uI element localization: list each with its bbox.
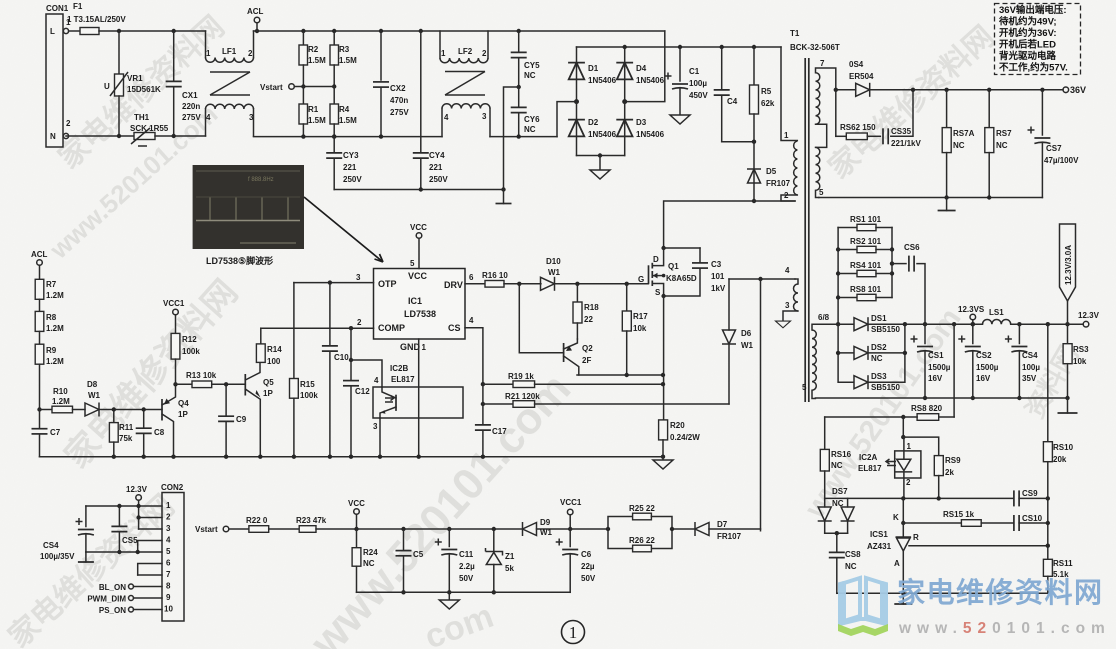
svg-text:275V: 275V bbox=[182, 113, 201, 122]
resistor R4 bbox=[330, 87, 357, 139]
svg-text:GND: GND bbox=[400, 342, 421, 352]
ACL terminal top bbox=[247, 7, 264, 31]
svg-text:75k: 75k bbox=[119, 434, 133, 443]
svg-text:1N5406: 1N5406 bbox=[588, 130, 617, 139]
svg-text:R3: R3 bbox=[339, 45, 350, 54]
resistor R24 bbox=[352, 529, 378, 592]
svg-text:8: 8 bbox=[166, 582, 171, 591]
terminal VCC bottom bbox=[348, 499, 365, 529]
svg-text:开机后若LED: 开机后若LED bbox=[999, 39, 1056, 51]
svg-text:10k: 10k bbox=[1073, 357, 1087, 366]
capacitor C1 bbox=[665, 47, 709, 124]
node Q1 source bbox=[661, 294, 665, 298]
resistor R11 bbox=[109, 410, 133, 457]
svg-text:NC: NC bbox=[996, 141, 1008, 150]
capacitor CS35 bbox=[867, 90, 921, 148]
inductor LS1 bbox=[983, 308, 1011, 324]
resistor RS62 bbox=[836, 90, 876, 140]
diode DS3 bbox=[838, 324, 905, 392]
svg-text:D: D bbox=[653, 255, 659, 264]
svg-text:SCK 1R55: SCK 1R55 bbox=[130, 124, 169, 133]
svg-text:RS7A: RS7A bbox=[953, 129, 975, 138]
resistor R25 bbox=[606, 504, 672, 549]
resistor R22 bbox=[246, 516, 299, 532]
svg-text:ICS1: ICS1 bbox=[870, 530, 888, 539]
node pin7/DS4 bbox=[834, 88, 838, 92]
node 6/8 row - bank left column bbox=[836, 322, 840, 326]
svg-text:C6: C6 bbox=[581, 550, 592, 559]
svg-text:D1: D1 bbox=[588, 64, 599, 73]
svg-text:R13 10k: R13 10k bbox=[186, 371, 217, 380]
ground bottom row bbox=[439, 592, 459, 609]
node pin1-CS5 bbox=[117, 504, 121, 508]
wire gate row bbox=[577, 283, 648, 285]
svg-text:IC2B: IC2B bbox=[390, 364, 408, 373]
svg-text:F1: F1 bbox=[73, 2, 83, 11]
capacitor CS8 bbox=[829, 533, 861, 593]
terminal 12.3V CON2 bbox=[126, 485, 148, 529]
wire source column bbox=[663, 296, 665, 420]
svg-text:CS1: CS1 bbox=[928, 351, 944, 360]
wire D7 riser bbox=[760, 279, 762, 531]
capacitor CS10 bbox=[1014, 514, 1048, 531]
svg-text:1P: 1P bbox=[178, 410, 188, 419]
wire CON2 pin4 bbox=[138, 541, 162, 553]
svg-text:R19 1k: R19 1k bbox=[508, 372, 534, 381]
svg-text:D2: D2 bbox=[588, 118, 599, 127]
node R21 left bbox=[481, 402, 485, 406]
resistor R5 bbox=[750, 45, 775, 142]
svg-text:1: 1 bbox=[166, 501, 171, 510]
resistor bank right column wire bbox=[891, 228, 893, 298]
svg-text:DS7: DS7 bbox=[832, 487, 848, 496]
svg-text:CS4: CS4 bbox=[43, 541, 59, 550]
capacitor CS5 bbox=[111, 506, 138, 552]
node source-R20 top bbox=[661, 373, 665, 377]
node R9-R10-C7 bbox=[37, 407, 41, 411]
svg-text:4: 4 bbox=[785, 266, 790, 275]
svg-text:4: 4 bbox=[206, 113, 211, 122]
svg-text:1: 1 bbox=[907, 442, 912, 451]
waveform photo bbox=[193, 165, 304, 249]
svg-text:1.2M: 1.2M bbox=[46, 291, 64, 300]
svg-text:COMP: COMP bbox=[378, 323, 405, 333]
svg-text:CY4: CY4 bbox=[429, 151, 445, 160]
svg-text:R4: R4 bbox=[339, 105, 350, 114]
wire feedback ground row bbox=[837, 592, 1048, 594]
svg-text:CS5: CS5 bbox=[122, 536, 138, 545]
svg-text:22: 22 bbox=[584, 315, 593, 324]
node D7 riser bbox=[758, 277, 762, 281]
connector CON2 bbox=[161, 483, 184, 621]
site logo bottom right bbox=[838, 576, 1111, 637]
node D4-D3 bbox=[622, 99, 627, 104]
capacitor C7 bbox=[32, 410, 61, 457]
svg-text:100k: 100k bbox=[182, 347, 200, 356]
svg-text:R15: R15 bbox=[300, 380, 315, 389]
svg-text:CY5: CY5 bbox=[524, 61, 540, 70]
svg-text:100µ: 100µ bbox=[689, 79, 707, 88]
svg-text:R: R bbox=[913, 533, 919, 542]
svg-text:U: U bbox=[104, 82, 110, 91]
svg-text:BL_ON: BL_ON bbox=[99, 583, 126, 592]
svg-text:1.2M: 1.2M bbox=[46, 357, 64, 366]
svg-text:DS1: DS1 bbox=[871, 314, 887, 323]
svg-text:C17: C17 bbox=[492, 427, 507, 436]
svg-text:450V: 450V bbox=[689, 91, 708, 100]
capacitor CS1 bbox=[911, 322, 951, 398]
svg-text:W1: W1 bbox=[741, 341, 754, 350]
svg-text:5: 5 bbox=[802, 383, 807, 392]
wire C4 to R5 bottom bbox=[722, 141, 754, 143]
svg-text:FR107: FR107 bbox=[766, 179, 791, 188]
pin4 CS wire bbox=[465, 316, 483, 384]
svg-text:FR107: FR107 bbox=[717, 532, 742, 541]
svg-text:275V: 275V bbox=[390, 108, 409, 117]
ground AZ431 bbox=[894, 593, 912, 604]
node ref-RS10 bbox=[1046, 544, 1050, 548]
wire CON2 pin6 bbox=[138, 564, 162, 576]
resistor RS1 bbox=[838, 215, 892, 231]
svg-text:221: 221 bbox=[429, 163, 443, 172]
diode D2 bbox=[568, 102, 616, 156]
svg-text:221: 221 bbox=[343, 163, 357, 172]
ground T (CY rail) bbox=[496, 187, 512, 203]
svg-text:1: 1 bbox=[422, 343, 427, 352]
svg-text:47µ/100V: 47µ/100V bbox=[1044, 156, 1079, 165]
ground bridge bbox=[590, 153, 610, 179]
svg-text:22µ: 22µ bbox=[581, 562, 595, 571]
wire bottom line LF2 to bridge bbox=[490, 136, 557, 138]
svg-text:VCC1: VCC1 bbox=[163, 299, 185, 308]
capacitor CY4 bbox=[413, 29, 449, 192]
svg-text:CS35: CS35 bbox=[891, 127, 912, 136]
wire CON2 pin5 bbox=[86, 551, 162, 553]
node rail IC1 GND bbox=[417, 455, 421, 459]
svg-text:Vstart: Vstart bbox=[260, 83, 283, 92]
svg-text:T1: T1 bbox=[790, 29, 800, 38]
svg-text:CON1: CON1 bbox=[46, 4, 69, 13]
svg-text:R7: R7 bbox=[46, 280, 57, 289]
svg-text:100: 100 bbox=[267, 357, 281, 366]
node rail C12 bbox=[349, 455, 353, 459]
capacitor C3 bbox=[664, 248, 726, 296]
wire primary ground rail bbox=[334, 189, 503, 191]
svg-text:16V: 16V bbox=[976, 374, 991, 383]
svg-text:SB5150: SB5150 bbox=[871, 383, 900, 392]
svg-text:N: N bbox=[50, 132, 56, 141]
capacitor C17 bbox=[475, 425, 507, 457]
node R19 right bbox=[661, 382, 665, 386]
svg-text:2: 2 bbox=[166, 513, 171, 522]
node R18 top bbox=[575, 282, 579, 286]
resistor R20 bbox=[659, 420, 701, 457]
svg-text:开机约为36V:: 开机约为36V: bbox=[999, 27, 1057, 39]
svg-text:CY6: CY6 bbox=[524, 115, 540, 124]
svg-text:1: 1 bbox=[206, 49, 211, 58]
svg-text:R5: R5 bbox=[761, 87, 772, 96]
capacitor C9 bbox=[218, 384, 247, 456]
svg-text:www.520101.com: www.520101.com bbox=[898, 620, 1111, 637]
terminal VCC1 bottom bbox=[560, 498, 582, 529]
svg-text:R26 22: R26 22 bbox=[629, 536, 655, 545]
svg-text:VCC: VCC bbox=[408, 271, 428, 281]
pin3 OTP wire bbox=[294, 273, 374, 283]
svg-text:CON2: CON2 bbox=[161, 483, 184, 492]
svg-text:1kV: 1kV bbox=[711, 284, 726, 293]
node CS35-36V rail bbox=[911, 88, 915, 92]
resistor RS3 bbox=[1063, 324, 1089, 400]
resistor RS7 bbox=[985, 88, 1012, 198]
svg-text:7: 7 bbox=[820, 59, 825, 68]
svg-text:D7: D7 bbox=[717, 520, 728, 529]
svg-text:1: 1 bbox=[569, 623, 578, 642]
MOSFET Q1 bbox=[638, 246, 697, 297]
tag 12.3V/3.0A bbox=[1060, 224, 1076, 324]
svg-text:R17: R17 bbox=[633, 312, 648, 321]
resistor RS10 bbox=[1043, 324, 1073, 559]
Vstart terminal bbox=[260, 83, 336, 92]
svg-text:R16 10: R16 10 bbox=[482, 271, 508, 280]
svg-text:1: 1 bbox=[784, 131, 789, 140]
svg-text:R2: R2 bbox=[308, 45, 319, 54]
connector CON1 bbox=[46, 4, 71, 147]
svg-text:DS2: DS2 bbox=[871, 343, 887, 352]
svg-text:CX1: CX1 bbox=[182, 91, 198, 100]
wire AC2 rise to bridge bbox=[557, 102, 577, 137]
svg-text:LD7538⑤脚波形: LD7538⑤脚波形 bbox=[206, 255, 273, 266]
svg-text:CS9: CS9 bbox=[1022, 489, 1038, 498]
ground secondary row bbox=[1058, 398, 1078, 413]
resistor RS15 bbox=[903, 510, 1013, 526]
svg-text:4: 4 bbox=[374, 376, 379, 385]
svg-text:1.5M: 1.5M bbox=[308, 116, 326, 125]
common mode choke LF2 bbox=[440, 31, 490, 137]
resistor R2 bbox=[299, 29, 326, 86]
svg-text:62k: 62k bbox=[761, 99, 775, 108]
diode D7 bbox=[695, 520, 761, 541]
svg-text:Q4: Q4 bbox=[178, 399, 189, 408]
resistor R26 bbox=[629, 536, 655, 552]
terminal 12.3V bbox=[1078, 311, 1100, 327]
diode D3 bbox=[616, 102, 664, 156]
svg-text:5: 5 bbox=[410, 259, 415, 268]
node AZ431 anode ground bbox=[901, 591, 905, 595]
svg-text:1.2M: 1.2M bbox=[46, 324, 64, 333]
svg-text:CS2: CS2 bbox=[976, 351, 992, 360]
node VCC1-C6 bbox=[568, 527, 572, 531]
svg-text:C4: C4 bbox=[727, 97, 738, 106]
svg-text:DRV: DRV bbox=[444, 280, 463, 290]
resistor R14 bbox=[256, 328, 282, 366]
svg-text:CS6: CS6 bbox=[904, 243, 920, 252]
AZ431 ref wire bbox=[909, 545, 1048, 547]
shunt reg ICS1 AZ431 bbox=[867, 498, 919, 593]
diode D9 bbox=[523, 518, 571, 537]
svg-text:R10: R10 bbox=[53, 387, 68, 396]
svg-text:1.5M: 1.5M bbox=[339, 56, 357, 65]
svg-text:NC: NC bbox=[831, 461, 843, 470]
resistor RS7A bbox=[942, 88, 974, 198]
terminal 36V bbox=[1063, 85, 1086, 95]
svg-text:D8: D8 bbox=[87, 380, 98, 389]
svg-text:100k: 100k bbox=[300, 391, 318, 400]
svg-text:ER504: ER504 bbox=[849, 72, 874, 81]
svg-text:10k: 10k bbox=[633, 324, 647, 333]
node D1-D2 bbox=[574, 99, 579, 104]
svg-text:6: 6 bbox=[469, 273, 474, 282]
svg-text:0S4: 0S4 bbox=[849, 60, 864, 69]
svg-text:K8A65D: K8A65D bbox=[666, 274, 697, 283]
svg-text:220n: 220n bbox=[182, 102, 200, 111]
diode DS7 pair bbox=[818, 487, 855, 535]
resistor R7 bbox=[35, 279, 64, 311]
transformer T1 core bbox=[790, 29, 840, 402]
svg-text:2.2µ: 2.2µ bbox=[459, 562, 475, 571]
svg-text:2F: 2F bbox=[582, 356, 591, 365]
svg-text:35V: 35V bbox=[1022, 374, 1037, 383]
resistor R17 bbox=[622, 284, 648, 375]
diode D6 bbox=[722, 279, 754, 404]
capacitor CY3 bbox=[326, 134, 362, 189]
svg-text:CY3: CY3 bbox=[343, 151, 359, 160]
svg-text:7: 7 bbox=[166, 570, 171, 579]
capacitor CX2 bbox=[373, 29, 409, 139]
svg-text:C12: C12 bbox=[355, 387, 370, 396]
IC1 LD7538 bbox=[374, 269, 466, 353]
node D5 anode / drain wire bbox=[752, 199, 756, 203]
svg-text:10: 10 bbox=[164, 605, 173, 614]
svg-text:f 888.8Hz: f 888.8Hz bbox=[248, 177, 274, 183]
svg-text:36V输出端电压:: 36V输出端电压: bbox=[999, 4, 1067, 16]
varistor VR1 bbox=[104, 31, 161, 136]
svg-text:C1: C1 bbox=[689, 67, 700, 76]
svg-text:LS1: LS1 bbox=[989, 308, 1004, 317]
resistor R3 bbox=[330, 29, 357, 86]
node L-CX1 bbox=[172, 29, 176, 33]
resistor RS8 820 bbox=[825, 404, 954, 420]
svg-text:3: 3 bbox=[785, 301, 790, 310]
svg-text:G: G bbox=[638, 275, 644, 284]
svg-text:A: A bbox=[894, 559, 900, 568]
svg-text:Vstart: Vstart bbox=[195, 525, 218, 534]
svg-text:CS: CS bbox=[448, 323, 461, 333]
capacitor C12 bbox=[343, 328, 370, 457]
svg-text:待机约为49V;: 待机约为49V; bbox=[999, 16, 1057, 28]
wire CY5/CY6 midpoint to ground rail bbox=[504, 87, 519, 190]
svg-text:221/1kV: 221/1kV bbox=[891, 139, 921, 148]
node C1 bbox=[678, 45, 682, 49]
terminal Vstart bottom bbox=[195, 525, 249, 534]
svg-text:100µ/35V: 100µ/35V bbox=[40, 552, 75, 561]
svg-text:EL817: EL817 bbox=[391, 375, 415, 384]
svg-text:ACL: ACL bbox=[31, 250, 48, 259]
transistor Q4 bbox=[162, 384, 189, 456]
svg-text:1N5406: 1N5406 bbox=[636, 76, 665, 85]
node VCC junction bbox=[354, 527, 358, 531]
svg-text:家电维修资料网: 家电维修资料网 bbox=[897, 576, 1104, 608]
svg-text:VCC1: VCC1 bbox=[560, 498, 582, 507]
svg-text:VCC: VCC bbox=[348, 499, 365, 508]
svg-text:C10: C10 bbox=[334, 353, 349, 362]
svg-text:R22 0: R22 0 bbox=[246, 516, 268, 525]
terminal VCC1 left bbox=[163, 299, 185, 333]
transistor Q2 bbox=[519, 284, 593, 375]
svg-text:R20: R20 bbox=[670, 421, 685, 430]
labels BL_ON PWM_DIM PS_ON bbox=[87, 583, 162, 615]
svg-text:1500µ: 1500µ bbox=[976, 363, 999, 372]
pin6 DRV wire bbox=[465, 273, 485, 284]
resistor RS9 bbox=[903, 437, 961, 498]
svg-text:0.24/2W: 0.24/2W bbox=[670, 433, 700, 442]
svg-text:C11: C11 bbox=[459, 550, 474, 559]
svg-text:D10: D10 bbox=[546, 257, 561, 266]
wire bottom line LF1 to LF2 bbox=[254, 136, 443, 138]
svg-text:Z1: Z1 bbox=[505, 552, 515, 561]
svg-text:D5: D5 bbox=[766, 167, 777, 176]
resistor RS11 bbox=[1043, 559, 1073, 593]
svg-text:4: 4 bbox=[444, 113, 449, 122]
wire AC1 drop to bridge bbox=[625, 31, 665, 102]
svg-text:2: 2 bbox=[906, 478, 911, 487]
T1 primary winding 1-2 bbox=[781, 47, 797, 201]
node RS3 top bbox=[1065, 322, 1069, 326]
svg-text:5: 5 bbox=[819, 188, 824, 197]
svg-text:CS4: CS4 bbox=[1022, 351, 1038, 360]
svg-text:2: 2 bbox=[482, 49, 487, 58]
resistor R1 bbox=[299, 87, 326, 139]
ground R20 bbox=[653, 455, 673, 470]
capacitor C4 bbox=[714, 45, 738, 142]
svg-text:50V: 50V bbox=[581, 574, 596, 583]
svg-text:NC: NC bbox=[871, 354, 883, 363]
svg-text:W1: W1 bbox=[548, 268, 561, 277]
svg-text:1.5M: 1.5M bbox=[339, 116, 357, 125]
diode D4 bbox=[616, 47, 664, 102]
svg-text:12.3VS: 12.3VS bbox=[958, 305, 985, 314]
node CS10-RS10 bbox=[1046, 521, 1050, 525]
svg-text:16V: 16V bbox=[928, 374, 943, 383]
node D8-R11 bbox=[112, 407, 116, 411]
svg-text:RS7: RS7 bbox=[996, 129, 1012, 138]
svg-text:RS15 1k: RS15 1k bbox=[943, 510, 975, 519]
svg-text:W1: W1 bbox=[540, 528, 553, 537]
arrow photo to IC1 bbox=[304, 197, 383, 262]
svg-text:50V: 50V bbox=[459, 574, 474, 583]
wire CON2 pin3 bbox=[139, 528, 162, 530]
svg-text:100µ: 100µ bbox=[1022, 363, 1040, 372]
svg-text:12.3V: 12.3V bbox=[1078, 311, 1100, 320]
wire CS column bbox=[482, 384, 484, 424]
svg-text:6: 6 bbox=[166, 559, 171, 568]
wire top line LF1 to bridge bbox=[254, 30, 665, 32]
svg-text:RS8 820: RS8 820 bbox=[911, 404, 943, 413]
svg-text:L: L bbox=[50, 27, 55, 36]
capacitor CS6 bbox=[890, 243, 925, 324]
svg-text:DS3: DS3 bbox=[871, 372, 887, 381]
svg-text:3: 3 bbox=[249, 113, 254, 122]
pin2 COMP wire bbox=[261, 318, 374, 330]
capacitor CS4 output bbox=[1005, 322, 1040, 400]
svg-text:2: 2 bbox=[66, 119, 71, 128]
resistor R10 bbox=[40, 387, 86, 413]
node rail C10 bbox=[328, 455, 332, 459]
T1 12.3V winding 6/8-5 bbox=[802, 313, 838, 399]
resistor R12 bbox=[171, 333, 200, 384]
svg-text:AZ431: AZ431 bbox=[867, 542, 892, 551]
svg-text:1P: 1P bbox=[263, 389, 273, 398]
svg-text:RS1 101: RS1 101 bbox=[850, 215, 882, 224]
